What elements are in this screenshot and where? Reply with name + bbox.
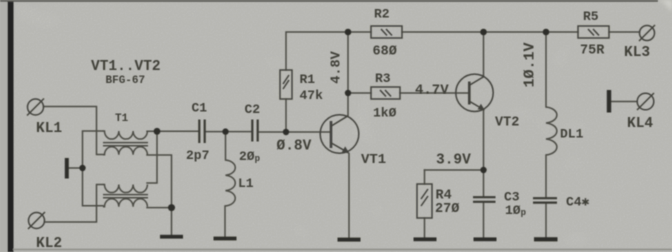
wire L1 to ground — [224, 206, 226, 238]
ground under C4 — [534, 237, 558, 241]
wire KL2 to T1 riser — [45, 185, 104, 223]
wire KL1 to T1 riser — [44, 107, 104, 155]
wire T1 right bottom link — [147, 155, 172, 208]
svg-text:3.9V: 3.9V — [436, 152, 471, 168]
bottom page border line — [13, 249, 672, 251]
svg-text:2p7: 2p7 — [186, 148, 209, 163]
wire R5 to KL3 — [609, 31, 640, 33]
ground under VT1 emitter — [338, 238, 361, 242]
svg-text:DL1: DL1 — [560, 126, 584, 141]
wire C2 to VT1 base node — [258, 131, 286, 133]
wire VT1 collector riser — [347, 32, 349, 116]
node dot T1 bottom right — [168, 204, 175, 211]
svg-text:75R: 75R — [580, 44, 605, 59]
wire C3 bottom plate to ground — [483, 202, 485, 238]
transistor VT2 — [456, 74, 493, 111]
wire VT1 emitter to ground — [348, 154, 350, 239]
svg-text:Ø.8V: Ø.8V — [277, 138, 312, 154]
ground under T1 — [160, 235, 183, 239]
terminal KL4 — [637, 93, 654, 110]
wire R4 bottom lead to ground — [424, 218, 426, 238]
svg-text:KL4: KL4 — [627, 116, 653, 132]
wire R3 to VT2 base — [400, 92, 470, 94]
wire C4 to ground — [545, 203, 547, 238]
node dot VT1 collector/R3 — [345, 90, 351, 96]
wire top rail left (4.8V feed corner to R2) — [286, 32, 371, 70]
svg-text:KL2: KL2 — [36, 236, 62, 252]
svg-text:VT1: VT1 — [361, 152, 386, 168]
svg-text:R2: R2 — [374, 6, 390, 21]
terminal KL2 — [28, 212, 45, 229]
wire node to R3 — [348, 92, 371, 94]
svg-text:L1: L1 — [238, 176, 254, 191]
wire R1 bottom to base node — [285, 99, 287, 132]
wire top rail R2 to R5 — [402, 31, 578, 33]
capacitor C4 — [533, 198, 557, 202]
svg-text:4.8V: 4.8V — [329, 50, 344, 83]
ground under C3 — [474, 237, 497, 241]
ground at KL4 (rotated bar) — [607, 90, 611, 113]
node dot C1/L1/C2 — [222, 128, 228, 134]
svg-text:1kØ: 1kØ — [373, 105, 397, 120]
svg-text:1Ø.1V: 1Ø.1V — [522, 42, 539, 87]
svg-text:47k: 47k — [300, 88, 324, 103]
wire T1 right top link — [147, 131, 157, 183]
node dot rail/VT1 collector — [345, 29, 352, 36]
node dot T1 output — [154, 128, 161, 135]
svg-text:27Ø: 27Ø — [435, 202, 459, 217]
svg-text:C1: C1 — [192, 101, 208, 116]
terminal KL1 — [27, 99, 44, 116]
svg-text:VT1..VT2: VT1..VT2 — [91, 59, 161, 75]
transformer T1 — [103, 131, 149, 207]
top page border line — [0, 0, 658, 2]
svg-text:T1: T1 — [115, 113, 129, 125]
resistor R2 — [371, 26, 402, 38]
wire VT2 collector riser — [483, 32, 485, 77]
book spine dark bar — [8, 0, 14, 252]
resistor R4 — [417, 184, 432, 218]
wire T1 bottom node to ground — [171, 208, 173, 236]
wire DL1 to C4 — [545, 155, 547, 198]
svg-text:VT2: VT2 — [495, 115, 519, 130]
capacitor C2 — [252, 120, 257, 142]
svg-text:KL3: KL3 — [624, 45, 650, 61]
terminal KL3 — [639, 25, 655, 41]
wire T1 upper winding left to ground link — [83, 131, 104, 206]
capacitor C1 — [199, 120, 204, 144]
transistor VT1 — [320, 115, 359, 154]
page gutter strip left of spine bar — [0, 0, 8, 252]
inductor DL1 — [546, 107, 557, 155]
resistor R5 — [578, 26, 609, 38]
node dot rail/DL1 — [543, 29, 550, 36]
wire ground stub T1 left — [68, 167, 83, 169]
wire rail to DL1 — [545, 32, 547, 107]
wire VT2 emitter to 3.9V node — [483, 111, 485, 171]
capacitor C3 — [473, 197, 496, 202]
svg-text:4.7V: 4.7V — [415, 83, 449, 99]
wire KL4 ground stub — [611, 101, 637, 103]
wire L1 node down to L1 — [225, 132, 227, 160]
inductor L1 — [225, 160, 235, 206]
svg-text:R1: R1 — [300, 72, 316, 87]
svg-text:R5: R5 — [583, 9, 599, 24]
wire base node to VT1 — [286, 131, 330, 133]
wire R4 top lead — [424, 170, 426, 184]
ground under R4 — [414, 237, 437, 241]
ground at T1 left (rotated bar) — [65, 158, 69, 179]
ground under L1 — [214, 237, 237, 241]
wire node to C3 top plate — [483, 170, 485, 197]
svg-text:C4✱: C4✱ — [566, 194, 590, 209]
svg-text:C2: C2 — [245, 102, 261, 117]
resistor R3 — [371, 87, 400, 99]
resistor R1 — [280, 70, 292, 99]
node dot VT1 base/R1/C2 — [283, 129, 289, 135]
svg-text:KL1: KL1 — [36, 121, 62, 137]
svg-text:R3: R3 — [375, 71, 391, 86]
wire 3.9V node to R4 — [425, 169, 484, 171]
wire C1 to L1 node — [205, 131, 252, 133]
node dot T1 left ground — [79, 165, 85, 171]
top-right light page corner — [658, 0, 672, 12]
svg-text:68Ø: 68Ø — [373, 45, 397, 60]
wire T1 output to C1 — [157, 130, 199, 132]
node dot rail/VT2 collector — [480, 29, 487, 36]
node dot 3.9V VT2 emitter — [480, 167, 486, 173]
svg-text:BFG-67: BFG-67 — [106, 75, 146, 87]
